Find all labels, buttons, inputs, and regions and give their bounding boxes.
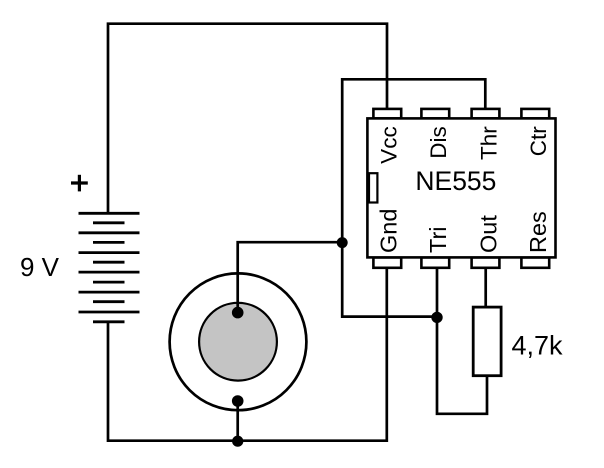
svg-text:Thr: Thr xyxy=(476,126,501,160)
wire: Tri pin down and right to resistor bottom xyxy=(437,267,487,414)
node: speaker bottom terminal xyxy=(232,395,244,407)
wire: Thr pin up, left and down to Tri junction xyxy=(342,79,485,316)
IC U1 NE555 body xyxy=(367,118,555,257)
node: speaker top terminal xyxy=(232,307,244,319)
svg-text:NE555: NE555 xyxy=(415,166,496,196)
pin Thr top pad xyxy=(472,109,500,119)
wire: speaker bottom terminal to bottom rail xyxy=(236,401,239,441)
IC notch marker xyxy=(369,173,377,202)
node: Thr/speaker junction xyxy=(337,237,348,248)
pin Tri bottom pad xyxy=(421,257,449,267)
wire: Out pin down to resistor top xyxy=(484,267,487,306)
pin Out bottom pad xyxy=(472,257,500,267)
wire: speaker top terminal to node at x341.8 xyxy=(238,242,343,312)
battery 9V xyxy=(79,213,140,321)
svg-text:Gnd: Gnd xyxy=(376,209,402,253)
speaker inner disc xyxy=(199,303,277,381)
wire: Gnd pin down, bottom rail, up to battery - xyxy=(108,267,387,441)
svg-text:Out: Out xyxy=(475,215,501,253)
pin Gnd bottom pad xyxy=(373,257,401,267)
pin Dis top pad xyxy=(421,109,449,119)
op IC U1 NE555 pin 8 Vcc top pad xyxy=(373,109,401,119)
pin Ctr top pad xyxy=(521,109,549,119)
node: bottom rail junction xyxy=(232,436,243,447)
wire: battery + to Vcc pin (top rail) xyxy=(108,24,387,213)
battery plus sign xyxy=(71,175,88,192)
svg-text:Tri: Tri xyxy=(425,226,451,253)
pin Res bottom pad xyxy=(521,257,549,267)
svg-text:4,7k: 4,7k xyxy=(512,331,564,361)
svg-text:Res: Res xyxy=(525,211,551,253)
svg-text:Vcc: Vcc xyxy=(377,126,402,164)
resistor 4,7k xyxy=(473,307,501,376)
svg-text:Ctr: Ctr xyxy=(526,126,551,157)
svg-text:9 V: 9 V xyxy=(20,252,60,282)
node: Tri junction xyxy=(431,312,442,323)
speaker outer circle xyxy=(170,273,307,410)
svg-text:Dis: Dis xyxy=(426,126,451,159)
